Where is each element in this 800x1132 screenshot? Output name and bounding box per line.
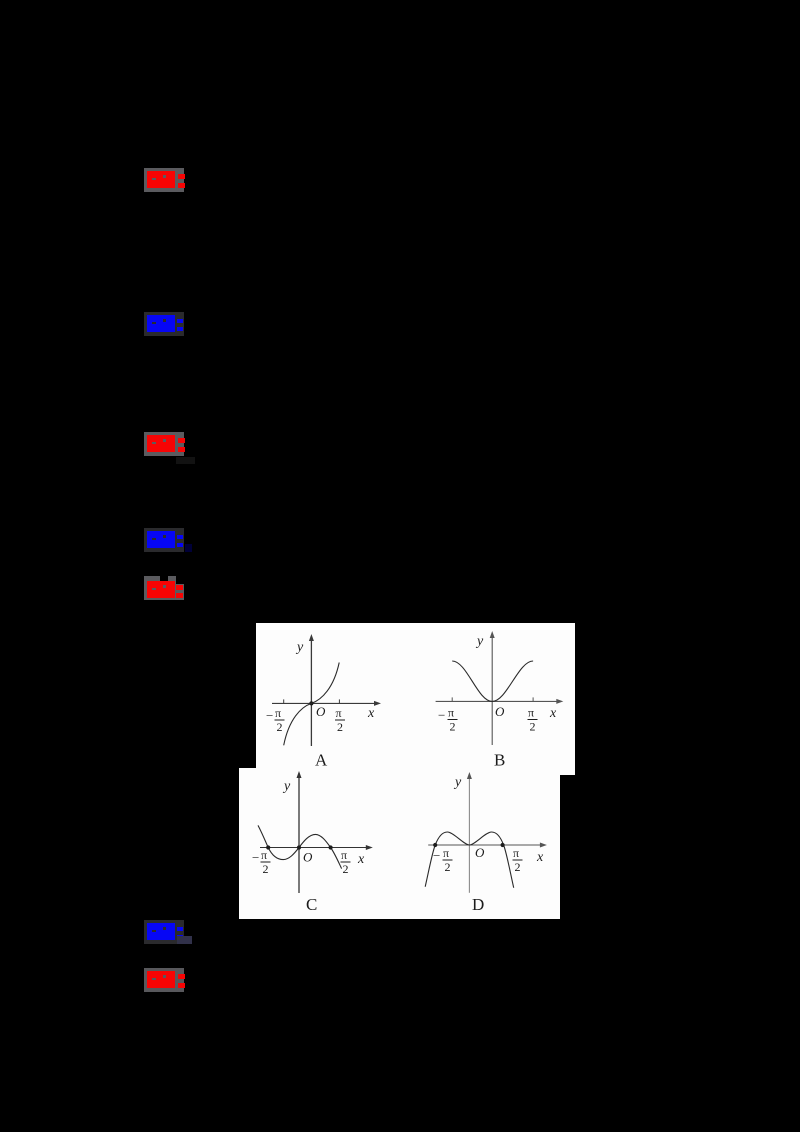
dim navy continuation after block 6 [177, 936, 192, 944]
svg-text:2: 2 [277, 720, 283, 734]
dim navy continuation after block 4 [185, 544, 192, 552]
graph C dots [266, 845, 270, 849]
svg-text:2: 2 [515, 860, 521, 874]
svg-text:x: x [357, 852, 365, 867]
svg-text:π: π [448, 706, 454, 720]
svg-text:π: π [443, 846, 449, 860]
svg-text:−: − [266, 708, 273, 723]
svg-text:O: O [303, 850, 313, 865]
svg-text:C: C [306, 895, 317, 914]
svg-text:π: π [336, 706, 342, 720]
svg-text:π: π [341, 848, 347, 862]
svg-text:π: π [528, 706, 534, 720]
svg-text:A: A [315, 751, 328, 770]
graph B ticks [451, 697, 453, 701]
svg-text:y: y [295, 640, 304, 655]
block 6: blue highlighted label [144, 920, 184, 944]
block 7: red highlighted label [144, 968, 184, 992]
block 5: red highlighted label with notched top [144, 584, 184, 600]
graph A curve (tangent-like) [284, 663, 340, 746]
svg-text:−: − [252, 850, 259, 865]
svg-text:2: 2 [450, 720, 456, 734]
graph D curve (double bump M) [425, 832, 514, 888]
graph C x-axis [260, 847, 369, 849]
svg-text:y: y [475, 634, 484, 649]
svg-text:2: 2 [445, 860, 451, 874]
svg-text:π: π [261, 848, 267, 862]
block 2: blue highlighted label [144, 312, 184, 336]
block 1: red highlighted label [144, 168, 184, 192]
svg-text:x: x [367, 706, 375, 721]
graph A x-axis [272, 702, 377, 704]
graph A ticks [283, 699, 285, 703]
block 3: red highlighted label [144, 432, 184, 456]
graph C curve (sine-like) [258, 825, 342, 868]
svg-text:−: − [433, 848, 440, 863]
svg-text:x: x [549, 706, 557, 721]
graph C y-axis [298, 776, 300, 893]
graph B y-axis [491, 636, 493, 745]
svg-text:x: x [536, 850, 544, 865]
graph D y-axis [468, 777, 470, 893]
svg-text:B: B [494, 751, 505, 770]
block 4: blue highlighted label [144, 528, 184, 552]
graph B x-axis [436, 700, 559, 702]
svg-text:O: O [495, 704, 505, 719]
graph D x-axis [428, 844, 543, 846]
svg-text:2: 2 [263, 862, 269, 876]
svg-text:O: O [316, 704, 326, 719]
panel 1: white figure with graphs A and B [256, 623, 575, 775]
svg-text:y: y [453, 775, 462, 790]
svg-text:−: − [438, 708, 445, 723]
graph A y-axis [310, 639, 312, 746]
svg-text:2: 2 [530, 720, 536, 734]
graph A origin dot [309, 701, 313, 705]
graph D dots [433, 843, 437, 847]
faint remnant after block 3 [176, 457, 195, 464]
svg-text:π: π [275, 706, 281, 720]
svg-text:2: 2 [343, 862, 349, 876]
svg-text:y: y [282, 779, 291, 794]
svg-text:2: 2 [337, 720, 343, 734]
svg-text:D: D [472, 895, 484, 914]
graph B curve (1-cos shape) [452, 661, 533, 701]
svg-text:π: π [513, 846, 519, 860]
svg-text:O: O [475, 845, 485, 860]
panel 2: white figure with graphs C and D [239, 768, 560, 919]
